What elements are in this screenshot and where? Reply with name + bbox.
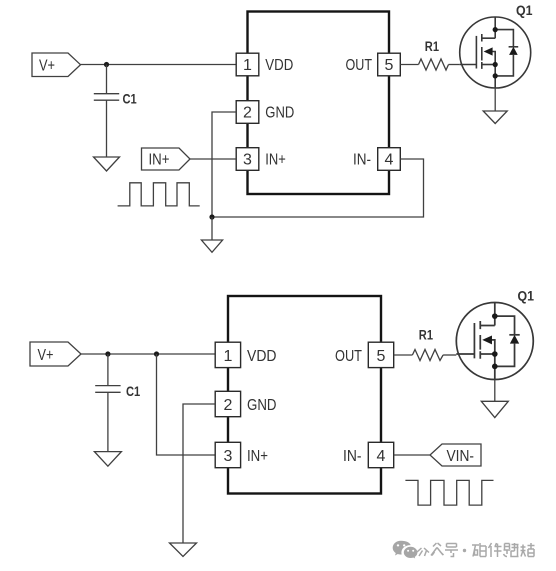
node V+/IN+ junction (bottom)	[154, 351, 159, 356]
pin 4 square	[378, 148, 401, 171]
svg-text:V+: V+	[39, 58, 55, 75]
svg-text:1: 1	[224, 348, 233, 365]
capacitor C1 (bottom)	[95, 386, 120, 393]
wire pin 4 to VIN-	[394, 454, 430, 456]
svg-text:VDD: VDD	[247, 348, 277, 365]
node gnd junction (top)	[209, 214, 214, 219]
input square wave (bottom)	[405, 480, 493, 505]
svg-text:R1: R1	[419, 328, 434, 343]
node V+/C1 junction (bottom)	[105, 351, 110, 356]
wire V+ to pin 1	[81, 353, 215, 355]
svg-text:VDD: VDD	[265, 57, 293, 74]
resistor R1 (bottom)	[412, 350, 443, 361]
wire IN+ rail (bottom)	[157, 354, 216, 455]
watermark text (stylized)	[417, 543, 535, 557]
ground below C1 (bottom)	[94, 452, 121, 467]
svg-text:IN+: IN+	[265, 152, 286, 169]
pin 5 square	[378, 53, 401, 76]
wire IN+ to pin 3	[190, 158, 236, 160]
svg-text:IN-: IN-	[353, 152, 371, 169]
transistor Q1 (bottom)	[456, 303, 533, 380]
svg-text:3: 3	[243, 152, 252, 169]
wire R1 to Q1 gate	[449, 64, 460, 66]
svg-text:2: 2	[224, 397, 233, 414]
ground below Q1 (top)	[483, 111, 507, 124]
IC body (bottom)	[228, 296, 381, 494]
svg-text:GND: GND	[247, 397, 277, 414]
ground below IC (top)	[201, 240, 222, 252]
wire C1 to ground (bottom)	[107, 392, 109, 451]
svg-text:OUT: OUT	[335, 348, 362, 365]
pin 2 square (bottom)	[215, 391, 240, 416]
wire pin 4 to gnd rail	[212, 159, 424, 217]
svg-text:4: 4	[377, 448, 386, 465]
pin 3 square (bottom)	[215, 442, 240, 467]
node V+/C1 junction	[104, 62, 109, 67]
pin 3 square	[236, 148, 259, 171]
svg-text:Q1: Q1	[516, 3, 533, 18]
svg-text:IN-: IN-	[343, 448, 362, 465]
connector V+ (top)	[32, 53, 81, 77]
pin 2 square	[236, 101, 259, 124]
svg-text:Q1: Q1	[518, 289, 535, 304]
svg-text:R1: R1	[425, 39, 440, 54]
svg-text:4: 4	[385, 152, 394, 169]
pin 1 square	[236, 53, 259, 76]
connector IN+ (top)	[142, 148, 191, 170]
wire V+ to pin 1	[81, 64, 237, 66]
IC body (top)	[248, 12, 390, 195]
wire pin 2 to gnd rail	[212, 112, 236, 217]
svg-text:IN+: IN+	[247, 448, 268, 465]
transistor Q1 (top)	[460, 17, 531, 88]
connector VIN-	[430, 444, 481, 466]
wire R1 to Q1 gate (bottom)	[443, 354, 456, 356]
svg-text:5: 5	[385, 57, 394, 74]
input square wave (top)	[118, 183, 200, 206]
wire C1 to ground	[106, 100, 108, 157]
ground below Q1 (bottom)	[481, 401, 508, 417]
svg-text:C1: C1	[126, 384, 141, 399]
svg-text:OUT: OUT	[346, 57, 373, 74]
ground below C1 (top)	[94, 157, 120, 171]
wire junction to C1 (bottom)	[107, 354, 109, 386]
svg-text:GND: GND	[265, 105, 294, 122]
svg-text:VIN-: VIN-	[447, 448, 475, 465]
wire pin 2 to ground (bottom)	[183, 404, 215, 543]
watermark wechat icon	[393, 541, 418, 560]
wire pin 5 to R1	[400, 64, 418, 66]
wire Q1 source to ground	[494, 88, 496, 111]
wire junction to C1	[106, 65, 108, 94]
pin 4 square (bottom)	[368, 442, 393, 467]
connector V+ (bottom)	[30, 342, 81, 366]
svg-text:3: 3	[224, 448, 233, 465]
pin 5 square (bottom)	[368, 342, 393, 367]
capacitor C1 (top)	[94, 94, 119, 101]
wire junction to ground	[211, 217, 213, 240]
svg-text:C1: C1	[123, 92, 138, 107]
svg-text:V+: V+	[38, 347, 54, 364]
svg-text:2: 2	[243, 105, 252, 122]
ground below pin 2 (bottom)	[170, 543, 197, 557]
svg-text:IN+: IN+	[149, 152, 170, 169]
svg-text:1: 1	[243, 57, 252, 74]
svg-text:5: 5	[377, 348, 386, 365]
wire pin 5 to R1 (bottom)	[394, 354, 413, 356]
wire Q1 source to ground (bottom)	[494, 380, 496, 402]
pin 1 square (bottom)	[215, 342, 240, 367]
resistor R1 (top)	[419, 59, 449, 70]
